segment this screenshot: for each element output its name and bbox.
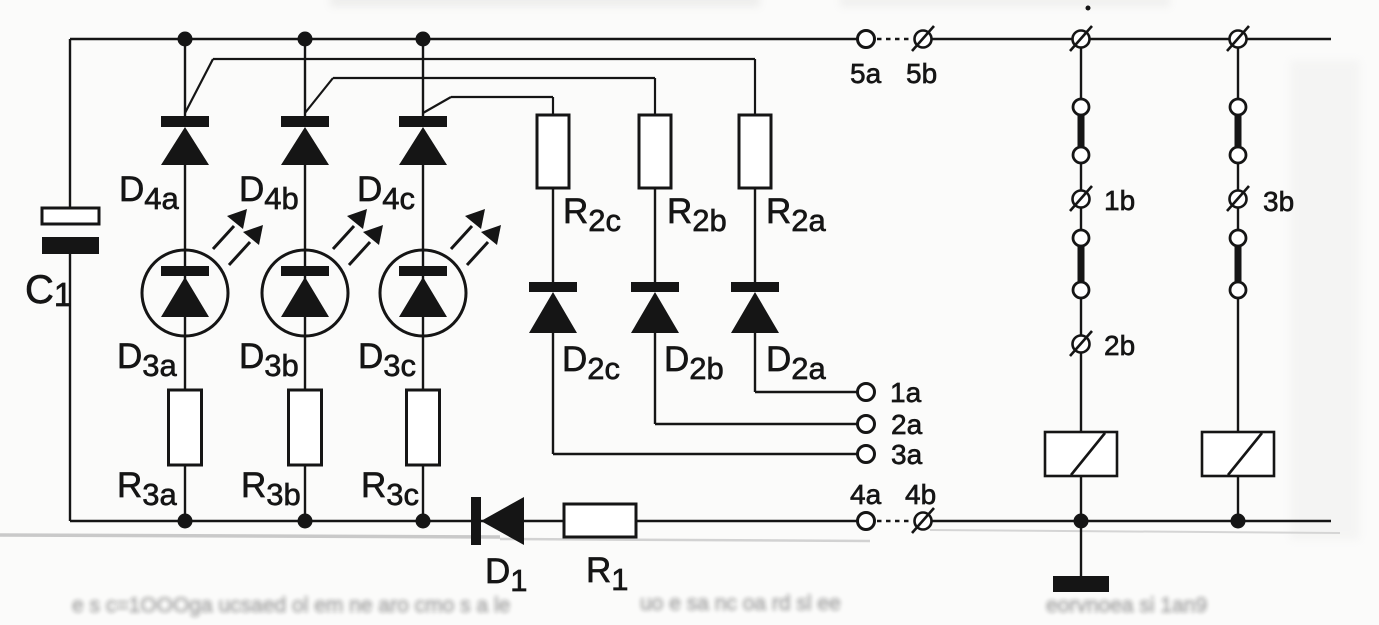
svg-text:1a: 1a: [890, 377, 922, 408]
svg-text:e s c=1OOOga ucsaed ol em ne: e s c=1OOOga ucsaed ol em ne aro cmo s a…: [72, 594, 510, 617]
svg-text:eorvnoea si 1an9: eorvnoea si 1an9: [1046, 594, 1207, 617]
svg-text:4a: 4a: [850, 479, 882, 510]
svg-text:uo e sa nc oa rd sl ee: uo e sa nc oa rd sl ee: [640, 592, 841, 615]
svg-text:3b: 3b: [1263, 186, 1294, 217]
svg-text:5a: 5a: [850, 58, 882, 89]
svg-text:1b: 1b: [1104, 185, 1135, 216]
svg-text:3a: 3a: [891, 439, 923, 470]
svg-text:2b: 2b: [1104, 330, 1135, 361]
svg-text:4b: 4b: [905, 479, 936, 510]
svg-text:2a: 2a: [891, 409, 923, 440]
svg-text:5b: 5b: [906, 58, 937, 89]
